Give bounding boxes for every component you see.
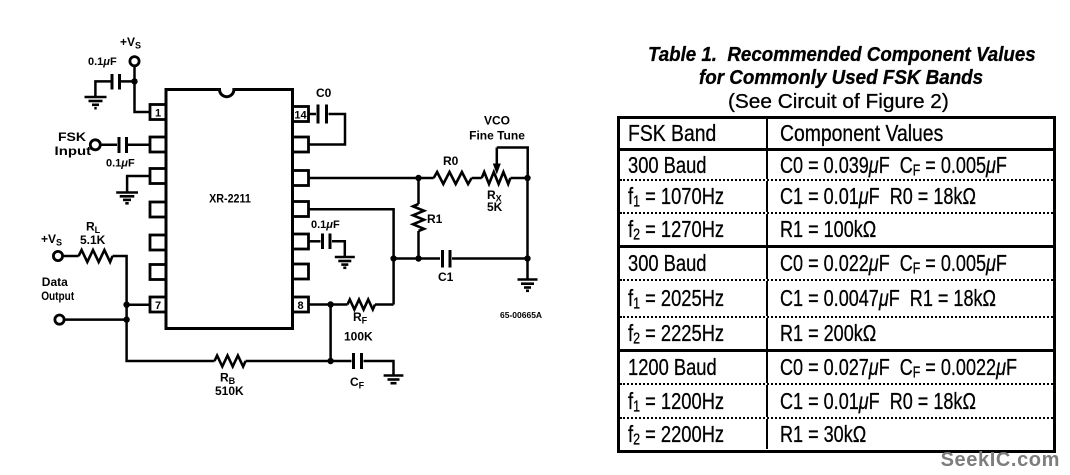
wire RB to CF junction	[246, 360, 331, 363]
svg-text:CF: CF	[350, 375, 365, 391]
0.1uF value label (top)	[88, 56, 117, 68]
ground symbol (pin 3)	[116, 193, 138, 204]
C0 coupling: wire pin 14 to C0	[309, 113, 317, 116]
table title line 2	[699, 67, 983, 90]
wire RX to right node	[511, 177, 528, 180]
wire junction down to pin 1	[135, 81, 151, 112]
svg-text:14: 14	[294, 110, 307, 122]
Data Output terminal	[55, 315, 64, 324]
pin 11 box	[293, 202, 309, 217]
pin 1 box	[150, 105, 166, 120]
table title line 1	[648, 44, 1036, 67]
RX wiper arrowhead	[493, 164, 501, 175]
potentiometer RX zigzag	[482, 172, 511, 184]
svg-text:C0: C0	[316, 86, 332, 100]
FSK Input terminal	[90, 140, 100, 150]
pin 6 box	[150, 265, 166, 280]
+Vs supply terminal (top)	[130, 57, 139, 66]
0.1uF value label (pin 10)	[311, 219, 340, 231]
ground symbol (pin 10 bypass)	[335, 257, 355, 268]
wire C1 line left segment	[394, 257, 440, 260]
RF reference label	[353, 310, 368, 326]
resistor R1 vertical zigzag	[413, 204, 424, 231]
+Vs label (RL)	[41, 232, 62, 248]
svg-text:RF: RF	[353, 310, 368, 326]
svg-text:5.1K: 5.1K	[80, 233, 106, 247]
wire C0 to pin 13 (loop)	[309, 114, 346, 145]
label XR-2211	[209, 194, 251, 206]
svg-text:0.1μF: 0.1μF	[106, 158, 135, 170]
resistor RL zigzag	[79, 250, 113, 262]
svg-text:1: 1	[155, 108, 161, 120]
RX value 5K	[487, 200, 503, 214]
pin 14 number	[294, 110, 307, 122]
svg-text:0.1μF: 0.1μF	[311, 219, 340, 231]
R0 reference label	[443, 154, 459, 168]
wire +Vs terminal to junction	[133, 66, 136, 82]
wire cap left plate to ground corner	[95, 81, 110, 96]
table title line 3	[728, 91, 949, 114]
FSK Input label	[55, 130, 92, 158]
pin 13 box	[293, 137, 309, 152]
svg-text:R0: R0	[443, 154, 459, 168]
svg-text:FSK: FSK	[58, 130, 86, 144]
ground symbol (CF)	[384, 376, 404, 384]
pin 7 number	[155, 300, 161, 312]
pin 8 number	[297, 300, 303, 312]
svg-text:XR-2211: XR-2211	[209, 194, 251, 206]
pin 7 box	[150, 297, 166, 312]
ground symbol (top-left)	[85, 97, 107, 108]
junction node RX right	[524, 175, 530, 181]
wire terminal to RL	[63, 255, 79, 258]
pin 3 box	[150, 169, 166, 184]
SeekIC.com watermark	[941, 449, 1060, 472]
pin 12 box	[293, 171, 309, 186]
capacitor C0 plates	[318, 105, 327, 124]
wire cap to ground (pin 10)	[332, 241, 345, 256]
+Vs terminal (RL)	[53, 251, 62, 260]
wire CF to ground	[364, 361, 394, 375]
wire R0 to RX	[472, 177, 482, 180]
pin 8 box	[293, 297, 309, 312]
wire pin 10 to bypass cap	[309, 240, 321, 243]
wire junction to cap right plate	[121, 80, 135, 83]
CF reference label	[350, 375, 365, 391]
resistor RF zigzag	[348, 300, 376, 310]
svg-text:5K: 5K	[487, 200, 503, 214]
pin 9 box	[293, 264, 309, 279]
RB value 510K	[215, 384, 244, 398]
0.1uF value label (input)	[106, 158, 135, 170]
wire RL to left bus corner	[113, 256, 127, 305]
svg-text:65-00665A: 65-00665A	[500, 310, 542, 320]
svg-text:0.1μF: 0.1μF	[88, 56, 117, 68]
svg-text:+VS: +VS	[41, 232, 62, 248]
RL value 5.1K	[80, 233, 106, 247]
junction node RB/CF/pin8	[327, 358, 333, 364]
input coupling capacitor 0.1uF plates	[119, 137, 127, 153]
wire pin 3 to ground	[127, 176, 150, 192]
bypass capacitor 0.1uF (top) plates	[112, 74, 120, 90]
svg-text:C1: C1	[438, 270, 454, 284]
svg-text:510K: 510K	[215, 384, 244, 398]
svg-text:Fine Tune: Fine Tune	[469, 129, 525, 143]
svg-text:Data: Data	[42, 275, 68, 289]
junction node pin7	[123, 302, 129, 308]
wire Data Output terminal to bus	[64, 318, 127, 321]
wire junction to CF	[331, 360, 352, 363]
RB reference label	[220, 371, 236, 387]
pin 10 box	[293, 234, 309, 249]
wire R0/R1 junction down through R1 to C1 line	[417, 178, 420, 259]
pin 2 box	[150, 137, 166, 152]
wire coupling cap to pin 2	[128, 144, 150, 147]
wire FSK terminal to coupling cap	[100, 144, 117, 147]
junction node C1 line / feedback bus	[390, 255, 396, 261]
drawing number 65-00665A	[500, 310, 542, 320]
wire RF to vertical feedback bus	[375, 303, 394, 306]
pin 5 box	[150, 235, 166, 250]
resistor RB zigzag	[215, 356, 246, 367]
svg-text:Input: Input	[55, 144, 92, 158]
RL reference label	[86, 220, 101, 236]
R1 reference label	[427, 212, 443, 226]
RF value 100K	[344, 330, 373, 344]
C0 reference label	[316, 86, 332, 100]
left bus wire down to RB	[127, 305, 215, 361]
RX reference label	[487, 188, 502, 204]
svg-text:+VS: +VS	[120, 35, 141, 51]
resistor R0 zigzag	[434, 172, 472, 184]
wire pin 8 to RF	[309, 303, 348, 306]
ground symbol (right)	[518, 280, 538, 291]
junction node right bottom	[524, 255, 530, 261]
bypass capacitor 0.1uF (pin 10) plates	[323, 234, 331, 250]
svg-text:100K: 100K	[344, 330, 373, 344]
vertical feedback wire pin 11 down to RF	[309, 209, 394, 304]
RX wiper arrow and bracket wire	[497, 148, 528, 179]
junction node (pin1 / bypass cap)	[131, 78, 137, 84]
svg-text:VCO: VCO	[484, 114, 510, 128]
right vertical wire RX node to ground	[526, 178, 529, 279]
component values table	[617, 116, 1056, 453]
junction node R0/R1	[415, 175, 421, 181]
+Vs label (top)	[120, 35, 141, 51]
capacitor CF plates	[354, 353, 362, 369]
pin 1 number	[155, 108, 161, 120]
pin 4 box	[150, 202, 166, 217]
Data Output label	[41, 275, 74, 303]
junction node data output	[123, 316, 129, 322]
capacitor C1 plates	[443, 250, 451, 268]
IC body XR-2211 (U1, 14-pin DIP)	[166, 90, 293, 329]
wire junction to pin 7	[127, 303, 150, 306]
wire C1 to right node	[452, 257, 528, 260]
junction node R1 bottom	[415, 255, 421, 261]
VCO Fine Tune label	[469, 114, 525, 143]
wire pin 12 to R0 (VCO timing line)	[309, 177, 434, 180]
svg-text:Output: Output	[41, 289, 74, 303]
C1 reference label	[438, 270, 454, 284]
junction node pin 8	[327, 301, 333, 307]
vertical wire pin8 junction to RB junction	[329, 305, 332, 362]
svg-text:8: 8	[297, 300, 303, 312]
svg-text:R1: R1	[427, 212, 443, 226]
pin 14 box	[293, 107, 309, 122]
svg-text:7: 7	[155, 300, 161, 312]
